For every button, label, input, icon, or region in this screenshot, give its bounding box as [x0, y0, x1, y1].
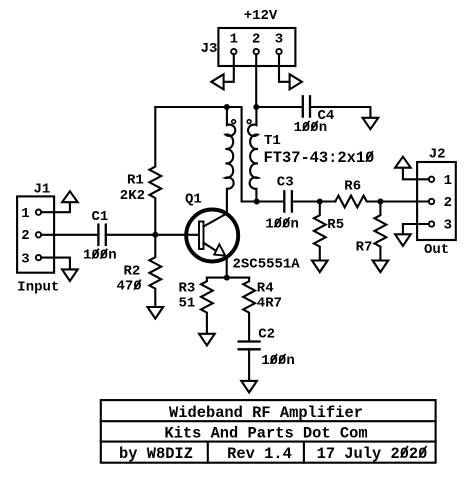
transistor Q1 — [185, 192, 300, 278]
svg-text:1: 1 — [230, 32, 238, 48]
node junction emitter node — [224, 275, 230, 281]
svg-text:100n: 100n — [294, 120, 328, 136]
wire J3 pin3 to right flag — [279, 54, 290, 82]
svg-text:+12V: +12V — [244, 8, 278, 24]
left arrow flag J3 pin1 — [211, 74, 223, 89]
svg-text:J1: J1 — [34, 182, 51, 198]
svg-text:T1: T1 — [264, 133, 281, 149]
svg-text:R6: R6 — [344, 178, 361, 194]
resistor R2 — [117, 235, 162, 307]
svg-text:R7: R7 — [356, 239, 373, 255]
wire C2 to ground — [248, 349, 250, 381]
capacitor C3 — [265, 174, 299, 232]
capacitor C1 — [83, 209, 117, 264]
svg-text:Kits And Parts Dot Com: Kits And Parts Dot Com — [164, 425, 367, 443]
svg-text:2K2: 2K2 — [120, 188, 145, 204]
svg-text:Rev 1.4: Rev 1.4 — [227, 445, 292, 463]
connector J2 — [417, 146, 456, 258]
svg-text:R1: R1 — [127, 173, 144, 189]
svg-text:R2: R2 — [124, 264, 141, 280]
wire emitter node rail — [207, 277, 249, 279]
svg-text:Wideband RF Amplifier: Wideband RF Amplifier — [169, 404, 363, 422]
svg-text:FT37-43:2x10: FT37-43:2x10 — [264, 149, 375, 167]
svg-text:470: 470 — [117, 279, 142, 295]
wire J3 pin2 down to +12V rail — [255, 54, 257, 107]
svg-text:1: 1 — [444, 173, 452, 189]
svg-text:R4: R4 — [257, 281, 274, 297]
wire J3 pin1 to left flag — [224, 54, 234, 82]
node junction left winding top — [224, 104, 230, 110]
svg-text:2: 2 — [252, 32, 260, 48]
svg-text:C3: C3 — [277, 174, 294, 190]
svg-text:17 July 2020: 17 July 2020 — [317, 445, 428, 463]
T1 right winding — [248, 107, 258, 202]
ground below R3 — [199, 334, 215, 346]
capacitor C2 — [239, 326, 295, 369]
node junction R5 node — [317, 199, 323, 205]
svg-text:C2: C2 — [258, 326, 275, 342]
wire +12V rail to C4 — [256, 106, 302, 108]
svg-text:100n: 100n — [265, 216, 299, 232]
T1 phase dot right — [247, 120, 251, 124]
ground at J1 pin3 — [62, 269, 78, 281]
resistor R7 — [356, 202, 387, 261]
wire C1 to base node — [106, 234, 199, 236]
title block — [101, 400, 436, 463]
supply flag at J1 pin1 — [62, 191, 78, 202]
supply flag at J2 pin1 — [395, 157, 411, 168]
svg-text:100n: 100n — [83, 248, 117, 264]
svg-text:3: 3 — [444, 218, 452, 234]
wire R7 node to J2 pin2 — [380, 200, 428, 202]
node junction at +12V rail — [253, 104, 259, 110]
svg-text:2SC5551A: 2SC5551A — [233, 256, 301, 272]
svg-text:R5: R5 — [327, 217, 344, 233]
wire J1 pin1 to supply flag — [41, 202, 70, 212]
svg-text:R3: R3 — [179, 281, 196, 297]
ground below C2 — [241, 381, 257, 393]
ground at J2 pin3 — [395, 234, 411, 246]
wire J2 pin3 to ground — [403, 224, 429, 234]
svg-text:Input: Input — [17, 279, 59, 295]
svg-text:Q1: Q1 — [185, 192, 202, 208]
svg-text:J3: J3 — [201, 41, 218, 57]
ground at C4 — [363, 118, 379, 129]
svg-text:51: 51 — [179, 295, 196, 311]
capacitor C4 — [294, 96, 335, 136]
wire J2 pin1 to supply flag — [403, 168, 429, 180]
node junction base node — [152, 232, 158, 238]
T1 phase dot left — [232, 120, 236, 124]
node junction R7 node — [377, 199, 383, 205]
resistor R5 — [314, 202, 344, 261]
wire tap to C3 — [257, 200, 284, 202]
ground below R7 — [373, 261, 389, 273]
ground below R2 — [148, 307, 164, 319]
node junction winding tap — [254, 199, 260, 205]
svg-text:C1: C1 — [92, 209, 109, 225]
T1 left winding — [226, 107, 236, 214]
svg-text:3: 3 — [21, 251, 29, 267]
right arrow flag J3 pin3 — [290, 74, 302, 89]
wire J1 pin2 to C1 — [41, 234, 98, 236]
svg-text:2: 2 — [444, 195, 452, 211]
resistor R4 — [243, 278, 282, 341]
resistor R1 — [120, 107, 161, 235]
svg-text:1: 1 — [21, 206, 29, 222]
transformer T1 — [226, 107, 375, 214]
resistor R6 — [335, 178, 380, 207]
connector J3 — [201, 28, 296, 66]
resistor R3 — [179, 278, 213, 334]
wire J1 pin3 to ground — [41, 258, 70, 270]
wire A: feedback rail from R1 top to winding tap — [155, 107, 256, 202]
node +12V label — [244, 8, 278, 24]
connector J1 — [17, 182, 59, 296]
svg-text:by W8DIZ: by W8DIZ — [119, 445, 193, 463]
ground below R5 — [312, 261, 328, 273]
svg-text:100n: 100n — [261, 353, 295, 369]
svg-text:3: 3 — [275, 32, 283, 48]
wire C4 to ground — [310, 107, 370, 118]
svg-text:2: 2 — [21, 228, 29, 244]
svg-text:4R7: 4R7 — [257, 295, 282, 311]
wire C3 to R5 node — [292, 200, 335, 202]
svg-text:J2: J2 — [429, 146, 446, 162]
svg-text:Out: Out — [424, 242, 449, 258]
